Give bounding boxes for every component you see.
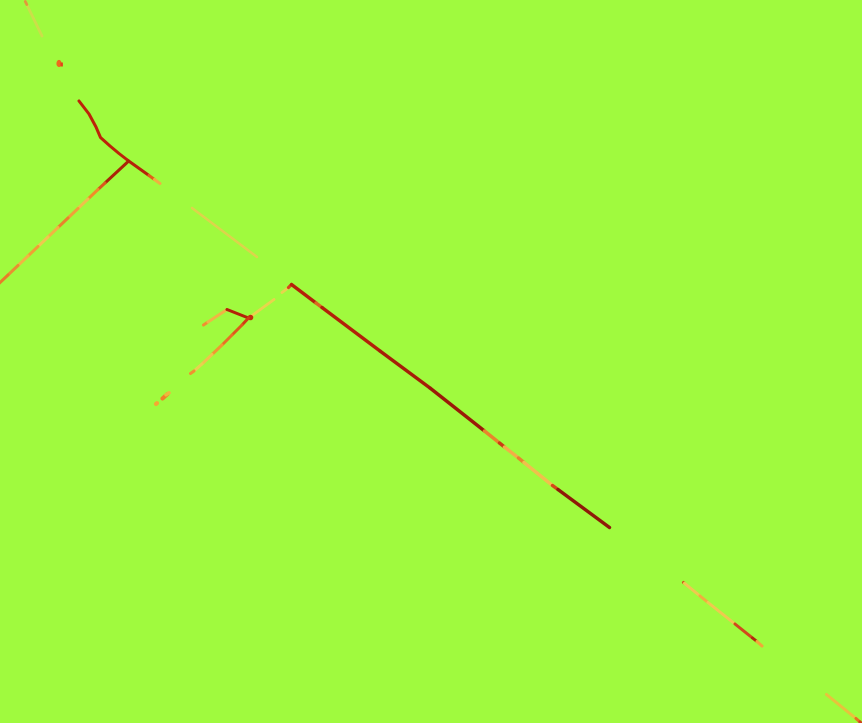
S1 junction blob [248, 315, 254, 321]
branch B1 down-right from junction [129, 161, 149, 176]
S2 dark red continues [322, 308, 380, 352]
structure S2: apex approach (yellow) [282, 288, 289, 293]
S2 long diagonal: dark red upper part [292, 285, 317, 304]
long mottled orange/yellow road to left edge [98, 183, 105, 190]
S1 broken dash 2 (small star) [156, 401, 157, 406]
S4 red dot at very corner [860, 722, 862, 723]
S2 apex (red-orange) [289, 285, 292, 288]
road L2 short dull-yellow diagonal [192, 208, 257, 257]
S2 congested-but-moving middle: orange/yellow [485, 431, 500, 443]
structure S3: lower diagonal (yellow with red patch) [684, 581, 685, 585]
road R1 curved main street (heavy traffic dark red) [79, 101, 129, 161]
S1 yellow link up-right from junction [250, 300, 274, 318]
S1 spur dark-red link into junction [227, 310, 249, 319]
road segment L1 top-left (slow yellow, orange tip) [25, 2, 42, 37]
structure S4: bottom-right corner road [827, 695, 857, 719]
structure S1: upper spur (orange/yellow) [204, 322, 209, 325]
traffic dot D1 [56, 60, 63, 67]
S1 gradient road down-left from junction [242, 318, 249, 325]
S2 dark maroon tail [558, 490, 610, 528]
branch B2 down-left from junction (dark red head) [105, 161, 129, 183]
S2 small orange patch [316, 303, 322, 308]
S1 broken dash 1 [163, 393, 170, 399]
